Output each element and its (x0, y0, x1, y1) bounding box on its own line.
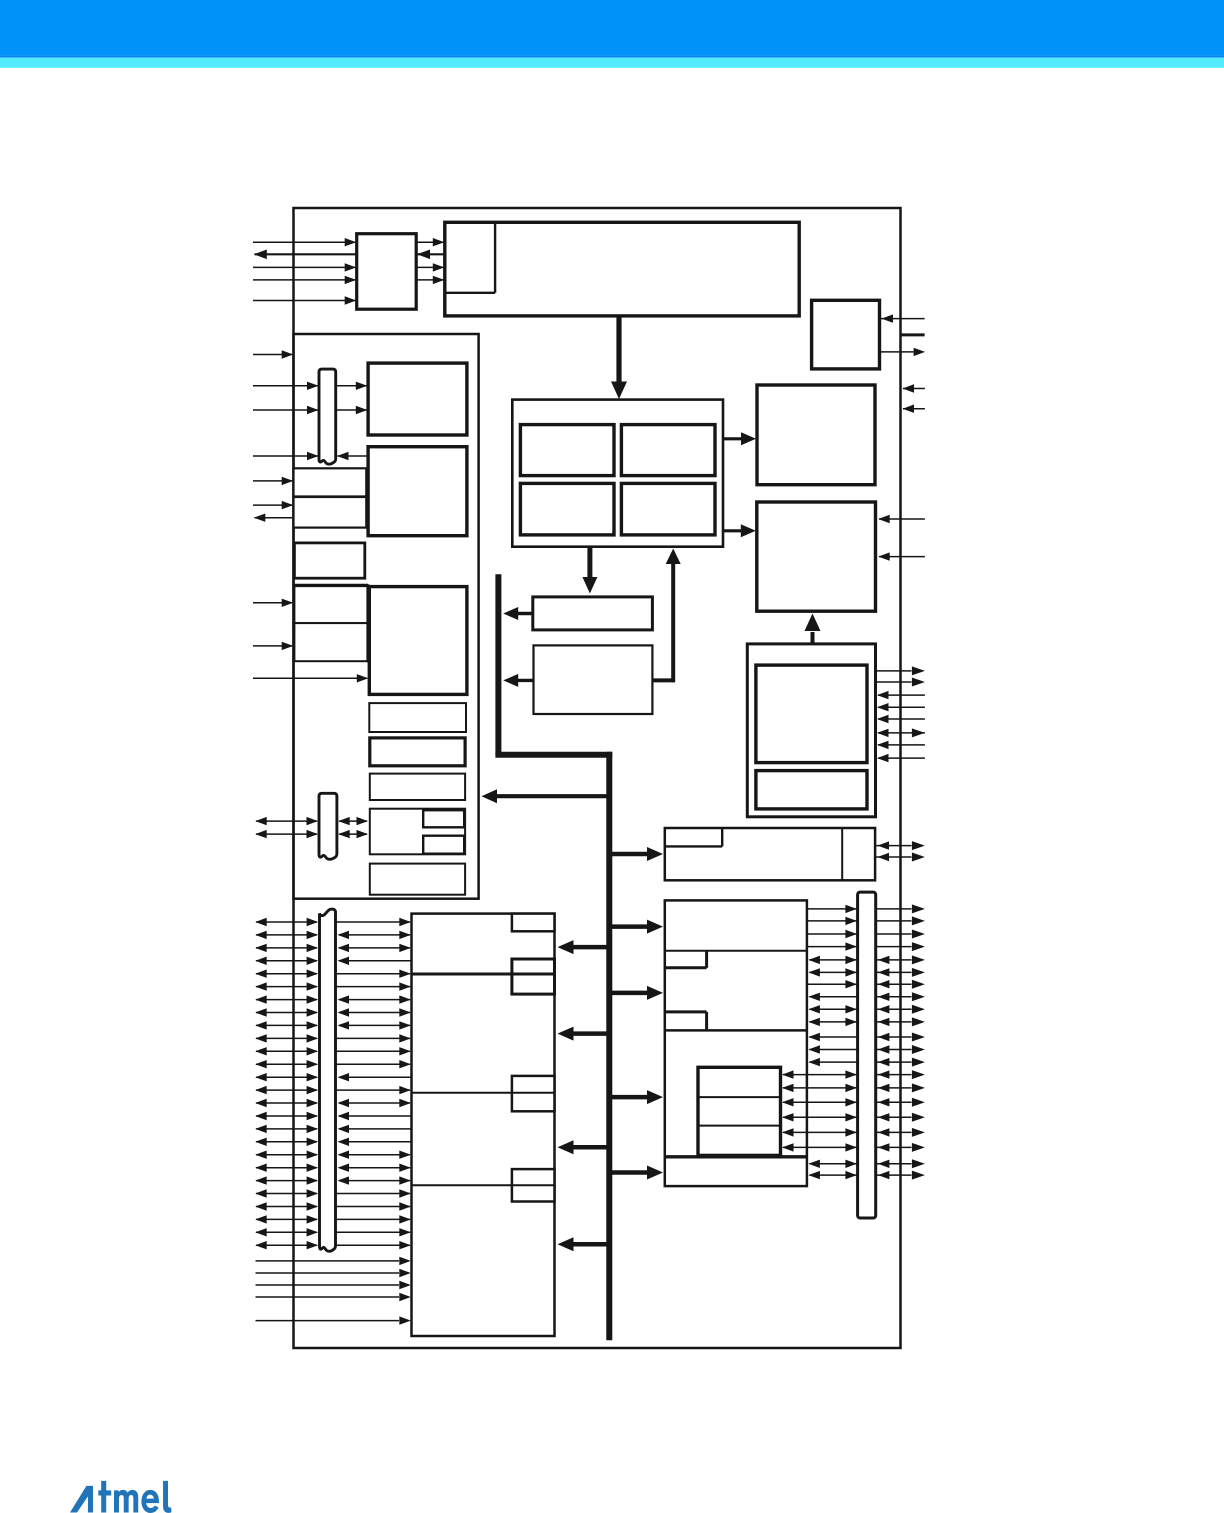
wire left port pin 5 (to peripheral) (336, 970, 411, 978)
wire left port pin 10 (page side) (255, 1034, 318, 1042)
arrow DMA to bus (503, 674, 533, 687)
wire osc pin 5 (in) (877, 715, 925, 723)
wire bottom input line 4 (256, 1293, 411, 1301)
divider left column 3 (412, 1184, 555, 1186)
wire left port pin 2 (to peripheral) (338, 931, 411, 939)
wire port bar right pin 11 (876, 1033, 925, 1042)
arrow bus to peripheral container (482, 789, 609, 803)
arrow bus to left port group 1 (558, 940, 609, 954)
wire left port pin 19 (page side) (255, 1151, 318, 1159)
wire port bar right pin 18 (876, 1128, 925, 1137)
wire left port pin 6 (to peripheral) (336, 982, 411, 990)
wire left port pin 20 (page side) (255, 1164, 318, 1172)
divider right group 1 (665, 950, 807, 952)
sub-box event box corner (665, 828, 722, 846)
arrow bus to right group 4 (608, 1090, 663, 1104)
wire port bar right pin 2 (876, 916, 925, 925)
port ribbon B (319, 793, 337, 859)
header blue banner (0, 0, 1224, 58)
box oscillator-clock generation (757, 385, 875, 485)
box peripheral container (294, 334, 479, 899)
wire port bar right pin 20 (876, 1159, 925, 1168)
wire left port pin 18 (page side) (255, 1138, 318, 1146)
wire port bar right pin 4 (876, 942, 925, 951)
arrow CPU to interrupt ctrl (down) (582, 547, 597, 594)
wire right group to port bar row 20 (808, 1160, 857, 1168)
wire osc pin 1 (out) (876, 666, 925, 675)
wire left port pin 22 (to peripheral) (336, 1189, 411, 1197)
wire osc pin 4 (in) (877, 703, 925, 711)
divider right group bottom bar (665, 1155, 807, 1158)
wire PDI to flash 3 (416, 263, 444, 271)
wire left port pin 16 (to peripheral) (338, 1112, 411, 1120)
bus vertical segment main (606, 752, 612, 1340)
wire PDI to flash 2 (back) (417, 250, 445, 260)
wire right group to port bar row 19 (782, 1143, 857, 1151)
wire XTAL2 input (903, 405, 925, 413)
wire port bar right pin 17 (876, 1113, 925, 1122)
box peripheral row 4 (370, 809, 465, 855)
wire event pin 2 (bidir) (875, 853, 925, 862)
thick edge ADCB top (294, 585, 368, 663)
wire left port pin 4 (to peripheral) (338, 957, 411, 965)
wire right group to port bar row 15 (782, 1084, 857, 1092)
divider left column 1 (412, 973, 555, 976)
wire left port pin 9 (page side) (255, 1021, 318, 1029)
wire PDI pin 3 (253, 263, 356, 271)
wire left port pin 25 (to peripheral) (336, 1228, 411, 1236)
box peripheral row 3 (370, 774, 465, 800)
box ADCB upper (294, 585, 368, 623)
box ACA (294, 468, 367, 497)
box ADCB lower (294, 623, 368, 661)
wire right group to port bar row 7 (807, 980, 857, 988)
wire AC output (254, 514, 294, 522)
arrow interrupt ctrl to bus (503, 607, 533, 620)
wire OCD input (881, 314, 925, 322)
wire port bar right pin 3 (876, 930, 925, 939)
arrow bus to right group 1 (608, 847, 663, 861)
wire left port pin 7 (page side) (255, 995, 318, 1003)
wire PDI pin 2 (out) (254, 250, 357, 260)
wire right group to port bar row 13 (808, 1058, 857, 1066)
divider TWI 2 (698, 1125, 781, 1127)
arrow bus to right group 2 (608, 920, 663, 934)
wire left port pin 15 (page side) (255, 1099, 318, 1107)
wire left port pin 4 (page side) (255, 957, 318, 965)
box OCD (812, 300, 880, 369)
wire left port pin 21 (page side) (255, 1176, 318, 1184)
arrow osc-control to power (up) (805, 614, 821, 644)
wire port B pin 1 (255, 817, 318, 825)
wire port bar right pin 10 (876, 1017, 925, 1026)
box PDI interface (357, 234, 417, 310)
box DMA controller (534, 645, 653, 714)
box CPU quadrant top-left (520, 425, 614, 476)
box left column sub 2 (512, 959, 555, 994)
arrow bus to left port group 4 (558, 1237, 609, 1251)
wire left port pin 24 (page side) (255, 1215, 318, 1223)
box CPU quadrant top-right (621, 425, 715, 476)
box CPU (512, 400, 723, 547)
box analog function 3 (369, 587, 467, 695)
wire DMA to CPU L-path (652, 549, 680, 683)
wire left port pin 8 (page side) (255, 1008, 318, 1016)
notch right group b (665, 1012, 707, 1031)
wire right group to port bar row 5 (808, 956, 857, 964)
wire ribbon B to peripheral (bidir) 2 (338, 830, 368, 838)
divider left column 2 (412, 1092, 555, 1094)
wire left port pin 14 (to peripheral) (336, 1086, 411, 1094)
wire right group to port bar row 8 (808, 993, 857, 1001)
wire right group to port bar row 16 (782, 1098, 857, 1106)
arrow flash to CPU (thick down) (611, 316, 627, 399)
box right peripheral group (665, 900, 807, 1186)
box oscillator circuits (756, 665, 867, 763)
wire right group to port bar row 21 (808, 1171, 857, 1179)
wire bottom input line 3 (256, 1281, 411, 1289)
wire port bar right pin 21 (876, 1171, 925, 1180)
wire right group to port bar row 6 (808, 968, 857, 976)
wire DACB input (253, 674, 368, 682)
wire ADCB input 2 (253, 642, 293, 650)
arrow CPU to clock box (723, 432, 756, 445)
wire left port pin 25 (page side) (255, 1228, 318, 1236)
wire port A pin 3 (253, 452, 319, 460)
wire left port pin 11 (page side) (255, 1047, 318, 1055)
wire port bar right pin 16 (876, 1098, 925, 1107)
wire osc pin 2 (out) (876, 678, 925, 687)
box interrupt controller (533, 597, 653, 630)
wire PDI to flash 1 (416, 238, 444, 246)
header cyan strip (0, 58, 1224, 68)
box analog function 2 (368, 447, 467, 536)
box NVM controller sub-box (445, 222, 495, 292)
box AREFB (294, 543, 364, 578)
wire right group to port bar row 3 (807, 930, 857, 938)
wire left port pin 8 (to peripheral) (338, 1008, 411, 1016)
port bar right (858, 892, 876, 1218)
wire port bar right pin 13 (876, 1058, 925, 1067)
wire right group to port bar row 12 (808, 1045, 857, 1053)
wire right group to port bar row 10 (808, 1018, 857, 1026)
box oscillator control group (747, 644, 875, 817)
wire osc pin 6 (bidir) (877, 728, 925, 737)
wire left port pin 3 (to peripheral) (338, 944, 411, 952)
wire left port pin 13 (to peripheral) (338, 1073, 411, 1081)
port ribbon C (320, 909, 336, 1251)
wire AREFA input (253, 501, 293, 509)
wire osc pin 8 (in) (877, 754, 925, 762)
wire ADCB input 1 (253, 599, 293, 607)
wire event pin 1 (bidir) (875, 841, 925, 850)
wire left port pin 6 (page side) (255, 982, 318, 990)
wire ACA input 1 (253, 477, 293, 485)
divider event box right cell (841, 828, 843, 880)
box peripheral row 2 (370, 738, 465, 766)
notch right group a (665, 951, 707, 968)
wire port bar right pin 6 (876, 968, 925, 977)
wire port bar right pin 12 (876, 1045, 925, 1054)
box left peripheral column (412, 914, 555, 1336)
wire left port pin 1 (page side) (255, 918, 318, 926)
wire left port pin 22 (page side) (255, 1189, 318, 1197)
wire left port pin 2 (page side) (255, 931, 318, 939)
box RTC oscillator (756, 771, 867, 809)
wire left port pin 12 (page side) (255, 1060, 318, 1068)
divider right group 2 (665, 1029, 807, 1032)
arrow bus to left port group 3 (558, 1140, 609, 1154)
box power supervision (757, 502, 876, 611)
wire right group to port bar row 14 (782, 1070, 857, 1078)
box peripheral row 4 sub-box b (423, 836, 464, 854)
wire left port pin 20 (to peripheral) (338, 1164, 411, 1172)
wire left port pin 16 (page side) (255, 1112, 318, 1120)
bus horizontal jog (495, 752, 612, 758)
wire OCD output (880, 348, 926, 356)
wire left port pin 1 (to peripheral) (336, 918, 411, 926)
wire left port pin 11 (to peripheral) (336, 1047, 411, 1055)
wire right group to port bar row 17 (782, 1113, 857, 1121)
bus vertical segment upper (495, 574, 501, 754)
Atmel logo (70, 1481, 171, 1513)
box peripheral row 4 sub-box a (423, 810, 464, 827)
wire left port pin 21 (to peripheral) (338, 1176, 411, 1184)
box program flash memory (445, 222, 799, 316)
wire left port pin 26 (page side) (255, 1241, 318, 1249)
wire bottom input line 5 (256, 1316, 411, 1324)
wire osc pin 7 (in) (877, 741, 925, 749)
box peripheral row 5 (370, 864, 465, 895)
wire right group to port bar row 1 (807, 905, 857, 913)
arrow bus to right group 3 (608, 986, 663, 1000)
wire bottom input line 2 (256, 1269, 411, 1277)
arrow bus to left port group 2 (558, 1027, 609, 1041)
wire left port pin 5 (page side) (255, 970, 318, 978)
wire left port pin 14 (page side) (255, 1086, 318, 1094)
wire port bar right pin 15 (876, 1083, 925, 1092)
wire ribbon A to box 2 (335, 406, 368, 414)
wire PDI pin 1 (253, 238, 356, 246)
wire container input (reset) (253, 350, 293, 358)
wire port A pin 1 (253, 382, 319, 390)
wire port bar right pin 19 (876, 1143, 925, 1152)
wire left port pin 7 (to peripheral) (338, 995, 411, 1003)
arrow bus to right group 5 (608, 1166, 663, 1180)
arrow CPU to power box (723, 524, 756, 537)
wire port bar right pin 5 (876, 955, 925, 964)
wire left port pin 9 (to peripheral) (338, 1021, 411, 1029)
wire osc pin 3 (in) (877, 691, 925, 699)
wire left port pin 23 (to peripheral) (336, 1202, 411, 1210)
wire PDI to flash 4 (416, 276, 444, 284)
box left column sub 4 (512, 1169, 555, 1201)
wire left port pin 24 (to peripheral) (336, 1215, 411, 1223)
box peripheral row 1 (369, 703, 466, 732)
wire left port pin 18 (to peripheral) (338, 1138, 411, 1146)
outer diagram border (294, 208, 901, 1348)
wire OCD stub (thick) (900, 333, 924, 336)
wire right group to port bar row 18 (782, 1128, 857, 1136)
wire left port pin 23 (page side) (255, 1202, 318, 1210)
wire left port pin 13 (page side) (255, 1073, 318, 1081)
wire box to ribbon A (back) (337, 452, 368, 460)
box TWI inner (698, 1067, 781, 1155)
box AREFA (294, 497, 367, 528)
wire port A pin 2 (253, 406, 319, 414)
wire left port pin 19 (to peripheral) (338, 1151, 411, 1159)
wire right group to port bar row 2 (807, 917, 857, 925)
wire right group to port bar row 9 (808, 1005, 857, 1013)
wire bottom input line 1 (256, 1257, 411, 1265)
wire XTAL1 input (903, 384, 925, 392)
wire ribbon A to box 1 (335, 382, 368, 390)
box CPU quadrant bottom-left (520, 483, 614, 535)
wire ribbon B to peripheral (bidir) 1 (338, 817, 368, 825)
box analog function 1 (368, 363, 467, 435)
wire left port pin 3 (page side) (255, 944, 318, 952)
wire right group to port bar row 11 (808, 1033, 857, 1041)
wire port bar right pin 14 (876, 1070, 925, 1079)
box CPU quadrant bottom-right (621, 483, 715, 535)
wire port bar right pin 1 (876, 904, 925, 913)
box left column sub 1 (512, 914, 555, 932)
wire port bar right pin 8 (876, 992, 925, 1001)
box event system controller (665, 828, 875, 880)
wire left port pin 26 (to peripheral) (336, 1241, 411, 1249)
wire power input 2 (878, 552, 925, 560)
wire port bar right pin 7 (876, 980, 925, 989)
wire left port pin 15 (to peripheral) (338, 1099, 411, 1107)
wire power input 1 (878, 515, 925, 523)
wire port bar right pin 9 (876, 1005, 925, 1014)
wire left port pin 17 (page side) (255, 1125, 318, 1133)
wire port B pin 2 (255, 830, 318, 838)
wire right group to port bar row 4 (807, 942, 857, 950)
wire left port pin 10 (to peripheral) (336, 1034, 411, 1042)
port ribbon A (319, 369, 336, 464)
wire PDI pin 5 (253, 296, 356, 304)
wire left port pin 17 (to peripheral) (338, 1125, 411, 1133)
wire PDI pin 4 (253, 276, 356, 284)
divider TWI 1 (698, 1096, 781, 1098)
box left column sub 3 (512, 1076, 555, 1111)
wire left port pin 12 (to peripheral) (336, 1060, 411, 1068)
